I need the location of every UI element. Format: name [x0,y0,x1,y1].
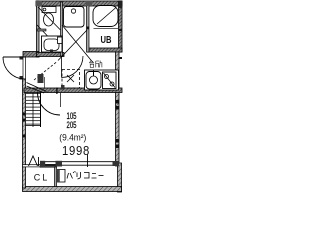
window band bottom [45,161,116,163]
room door arc [38,93,61,116]
wall washroom/UB divider [87,2,90,52]
left wall ticks [23,113,26,116]
room door jamb tick [56,88,57,95]
wall left top thin [37,1,40,57]
stove [103,72,117,89]
stairs [26,93,40,127]
right top wall ticks [119,29,123,31]
svg-text:UB: UB [101,34,112,46]
wall balcony right [118,163,122,192]
entrance door jamb blocks [20,56,24,59]
kitchen counter [85,70,119,90]
svg-text:205: 205 [67,120,77,130]
room door leaf [60,93,62,107]
toilet room bottom wall stub [37,29,46,31]
svg-text:CL: CL [34,173,50,183]
svg-text:1998: 1998 [62,143,90,158]
wall left [23,79,26,188]
closet fold door symbol [29,156,38,166]
pillar top left [36,1,42,6]
wall top [36,1,122,6]
door jamb entrance [22,57,24,79]
genkan step diagonals [27,83,47,92]
hinge box [58,37,63,44]
balcony label バルコニー [67,171,104,179]
wall UB bottom [87,48,122,52]
balcony divider panel [58,170,66,183]
toilet bowl [44,13,54,26]
stair bottom line [26,125,41,127]
kitchen label 台所 [89,61,102,68]
wall bottom [23,187,122,192]
shoe box [38,74,44,83]
washroom door diagonals [62,25,93,62]
wall kitchen bottom [24,88,122,93]
svg-text:(9.4m²): (9.4m²) [59,133,86,143]
wall stair right [40,93,42,128]
wall joint entrance top [23,52,39,58]
closet top wall [23,165,41,167]
entrance door [3,56,25,58]
bathtub [93,6,118,27]
right wall window marks [116,100,120,104]
wall toilet/washroom divider [61,2,63,56]
washing machine [62,70,80,89]
washbasin [42,36,63,52]
washroom door arc (into kitchen) [61,56,63,78]
wall right main [116,50,120,166]
pillar top [86,1,93,6]
closet right wall [55,167,57,187]
toilet door diagonal [38,7,61,30]
washroom door diagonal lower [37,25,59,48]
shower unit [64,7,85,28]
wall right upper [119,1,123,52]
sink [86,72,101,90]
toilet tank [42,7,56,13]
wall under washbasin [37,53,65,57]
